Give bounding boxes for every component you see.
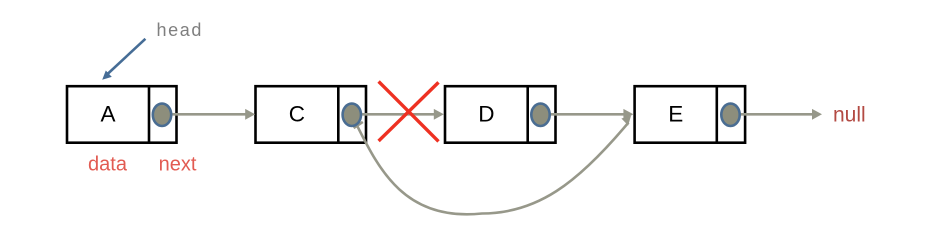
svg-text:head: head [157, 20, 203, 40]
arrowhead of curved pointer at node E [621, 116, 631, 126]
svg-text:E: E [668, 102, 683, 127]
node E next pointer oval [721, 104, 739, 126]
node C next pointer oval [343, 104, 361, 126]
red X deletion mark over C-to-D arrow [379, 82, 439, 142]
svg-text:D: D [478, 102, 494, 127]
svg-text:A: A [100, 102, 115, 127]
wire: arrow E to null [739, 113, 813, 116]
node E divider [715, 86, 718, 143]
node E box [635, 86, 746, 143]
node C box [256, 86, 367, 143]
node D next pointer oval [531, 104, 549, 126]
node D divider [526, 86, 529, 143]
wire: arrow A to C [171, 113, 247, 116]
svg-text:next: next [159, 154, 197, 176]
svg-text:null: null [833, 104, 866, 127]
node C divider [337, 86, 340, 143]
node A box [67, 86, 177, 143]
node D box [445, 86, 556, 143]
T-bar start cap of curved pointer [354, 122, 363, 128]
svg-text:C: C [289, 102, 305, 127]
wire: arrow D to E [549, 113, 625, 116]
svg-text:data: data [88, 154, 128, 176]
node A next pointer oval [153, 104, 171, 126]
head pointer arrow [107, 39, 145, 75]
wire: arrow C to D (crossed out) [360, 113, 435, 116]
wire: curved pointer from node C next to node E [355, 121, 629, 215]
node A divider [148, 86, 151, 143]
